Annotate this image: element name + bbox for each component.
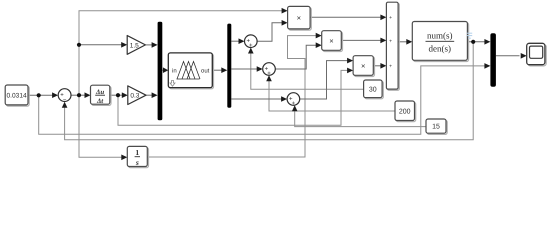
svg-text:den(s): den(s)	[429, 43, 452, 53]
svg-text:×: ×	[361, 62, 365, 71]
svg-text:+: +	[267, 71, 271, 77]
svg-text:200: 200	[399, 108, 411, 115]
svg-text:+: +	[292, 101, 296, 107]
svg-text:×: ×	[329, 37, 333, 46]
svg-text:0.0314: 0.0314	[7, 93, 28, 100]
svg-text:in: in	[172, 67, 177, 74]
svg-text:s: s	[135, 158, 139, 167]
svg-text:+: +	[389, 38, 392, 44]
svg-text:−: −	[63, 97, 67, 103]
svg-text:Δt: Δt	[96, 98, 104, 105]
svg-text:15: 15	[432, 124, 440, 131]
svg-text:30: 30	[369, 87, 377, 94]
svg-text:1.5: 1.5	[130, 42, 139, 49]
svg-text:+: +	[249, 43, 253, 49]
svg-text:out: out	[201, 68, 210, 74]
svg-text:1: 1	[135, 148, 139, 157]
svg-text:+: +	[389, 15, 392, 21]
svg-text:×: ×	[297, 14, 301, 23]
svg-text:num(s): num(s)	[427, 31, 453, 41]
svg-text:0.3: 0.3	[130, 93, 139, 100]
svg-text:+: +	[389, 64, 392, 70]
